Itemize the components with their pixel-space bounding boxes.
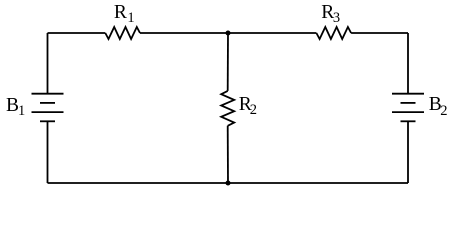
label R2	[239, 95, 257, 115]
wire middle branch lower	[227, 126, 229, 183]
wire top-middle: R1 to R3 through junction	[140, 32, 316, 34]
wire bottom rail	[48, 182, 409, 184]
label R3	[321, 3, 340, 23]
node top junction	[226, 31, 231, 36]
label B1	[6, 96, 25, 116]
battery B2	[392, 94, 424, 122]
label R1	[114, 3, 135, 23]
wire right rail upper	[407, 33, 409, 94]
wire top-right: R3 to right rail corner	[351, 32, 408, 34]
resistor R1	[105, 27, 140, 39]
resistor R3	[316, 27, 351, 39]
node bottom junction	[226, 181, 231, 186]
battery B1	[32, 94, 64, 122]
wire right rail lower	[407, 121, 409, 183]
wire top-left: from left rail corner to R1	[48, 32, 106, 34]
label B2	[429, 95, 448, 115]
wire left rail upper	[47, 33, 49, 94]
resistor R2	[221, 91, 234, 126]
wire middle branch upper	[227, 33, 229, 91]
wire left rail lower	[47, 121, 49, 183]
